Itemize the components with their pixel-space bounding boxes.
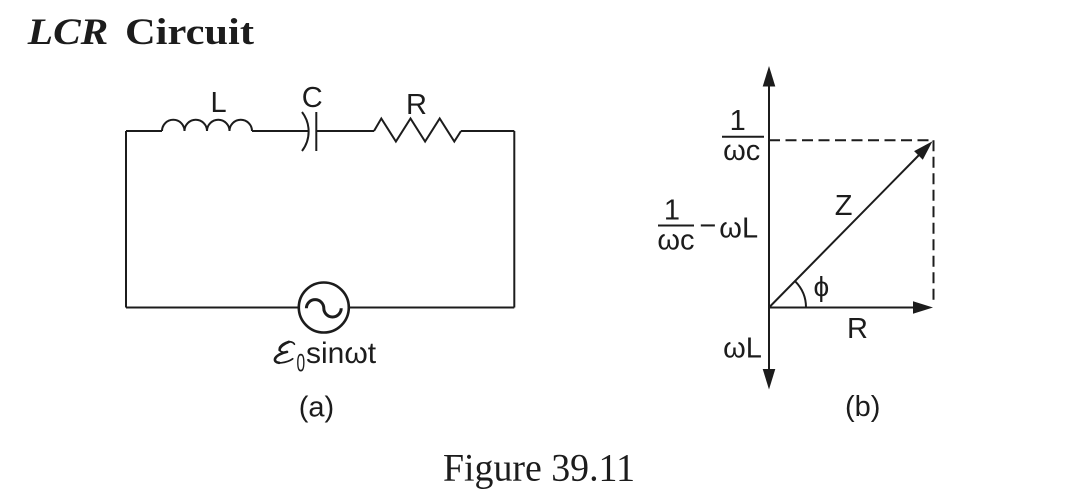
phasor vertical axis — [768, 83, 770, 372]
Z vector — [769, 155, 920, 308]
phi angle arc — [795, 281, 806, 307]
wire right vertical — [513, 131, 515, 308]
svg-text:sinωt: sinωt — [306, 337, 377, 370]
AC source sine wave — [306, 300, 341, 317]
svg-text:1: 1 — [664, 195, 680, 227]
svg-text:L: L — [211, 87, 227, 119]
capacitor C curved plate — [302, 112, 309, 151]
svg-text:Circuit: Circuit — [125, 12, 255, 53]
axis arrowhead up — [763, 66, 776, 87]
svg-text:LCR: LCR — [27, 12, 109, 53]
svg-text:C: C — [302, 82, 323, 114]
AC source circle — [299, 283, 349, 333]
svg-text:Figure 39.11: Figure 39.11 — [443, 446, 635, 489]
svg-text:0: 0 — [297, 350, 306, 378]
svg-text:R: R — [847, 313, 868, 345]
label 1/wc - wL (left) — [657, 195, 758, 257]
svg-text:R: R — [406, 89, 427, 121]
svg-text:1: 1 — [730, 105, 746, 137]
svg-text:(b): (b) — [845, 391, 880, 423]
wire resistor to right corner — [461, 130, 514, 132]
R vector — [769, 307, 916, 309]
label 1/wc (fraction at axis) — [722, 105, 764, 167]
wire bottom left segment — [126, 307, 299, 309]
svg-text:ωc: ωc — [657, 225, 694, 257]
dashed horizontal line — [769, 139, 934, 141]
svg-text:ϕ: ϕ — [814, 271, 830, 302]
wire left vertical — [125, 131, 127, 308]
Z vector arrowhead — [914, 141, 932, 160]
inductor L coil — [162, 120, 252, 131]
wire capacitor to resistor — [316, 130, 374, 132]
axis arrowhead down — [763, 369, 776, 390]
svg-text:−: − — [699, 210, 716, 242]
svg-text:ωL: ωL — [719, 213, 758, 245]
dashed vertical line — [933, 140, 935, 301]
wire top left segment — [126, 130, 162, 132]
wire bottom right segment — [349, 307, 515, 309]
svg-text:Z: Z — [835, 190, 853, 222]
resistor R zigzag — [374, 119, 461, 142]
capacitor C straight plate — [315, 112, 317, 151]
R vector arrowhead — [913, 301, 933, 313]
svg-text:ωc: ωc — [723, 135, 760, 167]
svg-text:(a): (a) — [299, 392, 334, 424]
svg-text:ωL: ωL — [723, 333, 762, 365]
label E0 sin wt : script E drawn as path — [275, 342, 295, 363]
wire inductor to capacitor — [252, 130, 308, 132]
